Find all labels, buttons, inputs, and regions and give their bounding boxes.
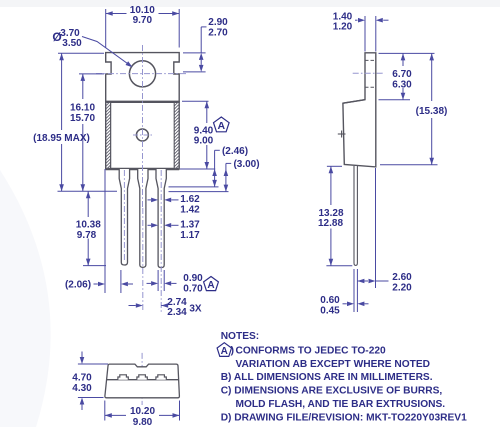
svg-text:4.70: 4.70: [72, 373, 92, 384]
svg-text:MOLD FLASH, AND TIE BAR EXTRUS: MOLD FLASH, AND TIE BAR EXTRUSIONS.: [236, 399, 446, 410]
side view: lead: [354, 166, 357, 265]
front view: vertical centerline: [142, 45, 144, 208]
svg-text:(15.38): (15.38): [416, 106, 448, 117]
notes heading: [221, 331, 260, 342]
dimension 13.28/12.88 (lead length side): [318, 166, 352, 265]
svg-text:B) ALL DIMENSIONS ARE IN MILLI: B) ALL DIMENSIONS ARE IN MILLIMETERS.: [221, 372, 433, 383]
svg-text:(18.95 MAX): (18.95 MAX): [33, 133, 90, 144]
svg-text:C) DIMENSIONS ARE EXCLUSIVE OF: C) DIMENSIONS ARE EXCLUSIVE OF BURRS,: [221, 386, 443, 397]
bottom view: package outline: [105, 364, 180, 398]
front view: lead 1: [119, 169, 129, 265]
svg-text:3.50: 3.50: [62, 38, 82, 49]
bottom view: lead stub 1: [118, 375, 128, 380]
svg-text:1.42: 1.42: [180, 204, 200, 215]
svg-text:1.20: 1.20: [333, 22, 353, 33]
note C line 1: [221, 386, 443, 397]
svg-text:NOTES:: NOTES:: [221, 331, 260, 342]
side view: horizontal centerline: [353, 72, 384, 74]
bottom view: lead stub 3: [156, 375, 166, 380]
dimension 2.60/2.20: [357, 168, 412, 293]
lead 1 centerline: [123, 170, 125, 262]
side view: gate mark tick: [338, 131, 346, 138]
svg-text:6.70: 6.70: [392, 69, 412, 80]
svg-text:2.90: 2.90: [208, 17, 228, 28]
svg-text:(2.06): (2.06): [65, 280, 91, 291]
note C line 2: [236, 399, 446, 410]
svg-text:9.70: 9.70: [133, 15, 153, 26]
dimension 10.38/9.78 (lead length): [76, 191, 106, 265]
dimension 0.60/0.45 (lead thickness): [320, 295, 368, 316]
dimension 0.90/0.70 with pentagon A (lead thickness): [147, 270, 219, 294]
svg-text:9.00: 9.00: [194, 136, 214, 147]
dimension (18.95 MAX) overall: [33, 53, 104, 191]
svg-text:10.20: 10.20: [130, 406, 155, 417]
dimension 2.90/2.70 (tab height above notch): [183, 17, 228, 72]
dimension (15.38) overall height: [380, 53, 447, 164]
svg-text:D) DRAWING FILE/REVISION: MKT-: D) DRAWING FILE/REVISION: MKT-TO220Y03RE…: [221, 412, 467, 423]
dimension (2.06) lead offset: [65, 169, 133, 293]
svg-text:2.74: 2.74: [167, 297, 187, 308]
standoff extension line (left): [58, 190, 118, 192]
lead 2 centerline: [142, 208, 144, 312]
svg-text:(2.46): (2.46): [222, 146, 248, 157]
dimension hole diameter 3.70/3.50 with leader: [52, 28, 134, 69]
svg-text:2.20: 2.20: [392, 282, 412, 293]
svg-text:3X: 3X: [189, 304, 202, 315]
svg-text:3.70: 3.70: [60, 28, 80, 39]
dimension (3.00): [169, 159, 260, 192]
svg-text:CONFORMS TO JEDEC TO-220: CONFORMS TO JEDEC TO-220: [236, 345, 387, 356]
svg-text:A: A: [218, 120, 226, 132]
svg-text:VARIATION AB EXCEPT WHERE NOTE: VARIATION AB EXCEPT WHERE NOTED: [236, 359, 431, 370]
front view: body hole: [133, 129, 152, 141]
dimension 1.37/1.17 (lead width lower): [148, 220, 201, 241]
svg-text:0.45: 0.45: [320, 305, 340, 316]
svg-text:): ): [231, 345, 234, 356]
svg-text:4.30: 4.30: [72, 383, 92, 394]
svg-text:13.28: 13.28: [318, 208, 343, 219]
note A line 2: [236, 359, 431, 370]
dimension 10.20/9.80 (body width): [105, 401, 180, 427]
svg-text:2.34: 2.34: [167, 307, 187, 318]
svg-text:12.88: 12.88: [318, 218, 343, 229]
svg-text:2.70: 2.70: [208, 27, 228, 38]
dimension 1.40/1.20 (tab thickness): [333, 11, 389, 51]
svg-text:9.78: 9.78: [77, 230, 97, 241]
svg-text:0.70: 0.70: [183, 283, 203, 294]
svg-text:(3.00): (3.00): [233, 159, 259, 170]
svg-text:16.10: 16.10: [70, 103, 95, 114]
dimension 16.10/15.70 (body height): [70, 74, 104, 191]
dimension 4.70/4.30 (body thickness): [72, 352, 108, 411]
bottom view: parting line: [106, 379, 178, 381]
note A line 1 with pentagon around A: [217, 343, 386, 357]
dimension 1.62/1.42 (lead width upper): [148, 194, 201, 215]
svg-text:1.40: 1.40: [333, 11, 353, 22]
svg-text:1.37: 1.37: [180, 220, 200, 231]
front view: lead 2: [138, 169, 148, 267]
svg-text:1.62: 1.62: [180, 194, 200, 205]
side view: tab and body outline: [343, 53, 376, 167]
dimension 10.10/9.70 (tab width): [106, 5, 180, 48]
svg-text:15.70: 15.70: [70, 113, 95, 124]
svg-text:2.60: 2.60: [392, 272, 412, 283]
dimension (2.46): [169, 146, 249, 187]
svg-text:1.17: 1.17: [180, 230, 200, 241]
svg-text:9.80: 9.80: [133, 417, 153, 427]
svg-text:6.30: 6.30: [392, 79, 412, 90]
svg-text:A: A: [207, 280, 214, 291]
svg-text:0.60: 0.60: [320, 295, 340, 306]
lead edge extension lines below tip (side view): [354, 269, 357, 312]
note D: [221, 412, 467, 423]
front view: body outline: [106, 102, 180, 169]
dimension 2.74/2.34 3X (lead pitch): [129, 297, 202, 318]
front view: lead 3: [156, 169, 166, 268]
side view: hidden hole lines in tab: [365, 60, 376, 87]
dimension 6.70/6.30 (tab height): [379, 53, 435, 99]
note B: [221, 372, 433, 383]
front view: horizontal centerline through mounting hole: [96, 73, 188, 75]
lead 3 centerline: [160, 170, 162, 312]
svg-text:0.90: 0.90: [183, 273, 203, 284]
front view: tab outline with side notches: [106, 53, 180, 102]
bottom view: lead stub 2: [137, 375, 147, 380]
front view: tab mounting hole: [129, 61, 155, 87]
dimension 9.40/9.00 with pentagon A flag: [180, 101, 229, 169]
bottom view: vertical centerline: [141, 353, 143, 405]
svg-text:A: A: [221, 346, 228, 357]
